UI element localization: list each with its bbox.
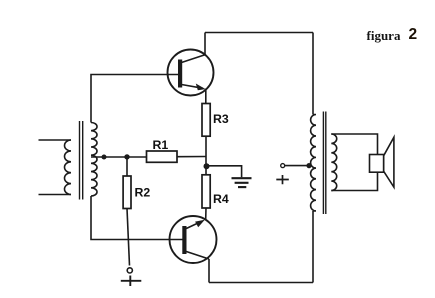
wire right rail upper	[312, 33, 314, 115]
node R2 junction	[124, 154, 129, 159]
resistor R3	[202, 104, 210, 137]
transistor Q1	[168, 50, 214, 96]
node center tap junction	[102, 155, 107, 160]
speaker driver	[370, 155, 384, 173]
transformer T2 primary winding	[311, 115, 316, 212]
wire R3 to R4	[205, 136, 207, 175]
wire secondary top to Q1 base (vertical)	[91, 75, 180, 123]
label plus T2	[276, 175, 289, 184]
wire top rail	[205, 32, 313, 34]
wire speaker connections	[331, 134, 377, 191]
resistor R1	[147, 151, 178, 162]
terminal bottom-left	[127, 268, 132, 273]
svg-text:2: 2	[409, 26, 418, 43]
transformer T2 core	[322, 112, 324, 215]
wire R2 top lead	[126, 157, 128, 176]
wire center tap to R1	[91, 156, 147, 158]
transistor Q2	[170, 216, 217, 263]
resistor R4	[202, 175, 210, 208]
ground	[232, 178, 252, 187]
svg-text:R1: R1	[153, 138, 169, 152]
wire T2 center tap lead	[285, 165, 309, 167]
speaker cone	[384, 137, 394, 187]
svg-text:R2: R2	[135, 186, 151, 200]
node middle junction	[204, 163, 210, 169]
resistor R2	[123, 176, 131, 209]
transformer T1 secondary winding	[91, 123, 97, 197]
terminal T2 tap	[281, 164, 285, 168]
wire R2 bottom lead to terminal	[127, 209, 130, 266]
wire R1 to middle column	[177, 156, 206, 158]
wire right rail lower	[312, 211, 314, 283]
wire Q1 emitter to R3	[205, 89, 207, 104]
wire bottom rail	[209, 282, 313, 284]
node T2 center tap	[306, 163, 311, 168]
svg-text:R3: R3	[213, 112, 229, 126]
transformer T1 core	[79, 121, 81, 200]
wire R4 bottom lead	[205, 208, 207, 219]
wire Q1 collector up	[204, 33, 206, 55]
transformer T1 primary winding	[65, 140, 71, 194]
wire secondary bottom to Q2 base (vertical)	[91, 196, 184, 240]
transformer T2 secondary winding	[331, 134, 336, 191]
svg-text:figura: figura	[367, 28, 401, 43]
wire ground branch	[207, 166, 242, 178]
wire input lead top	[39, 139, 72, 141]
wire Q2 collector down	[208, 259, 210, 283]
label plus bottom-left	[121, 276, 142, 287]
wire input lead bottom	[39, 194, 72, 196]
svg-text:R4: R4	[213, 192, 229, 206]
